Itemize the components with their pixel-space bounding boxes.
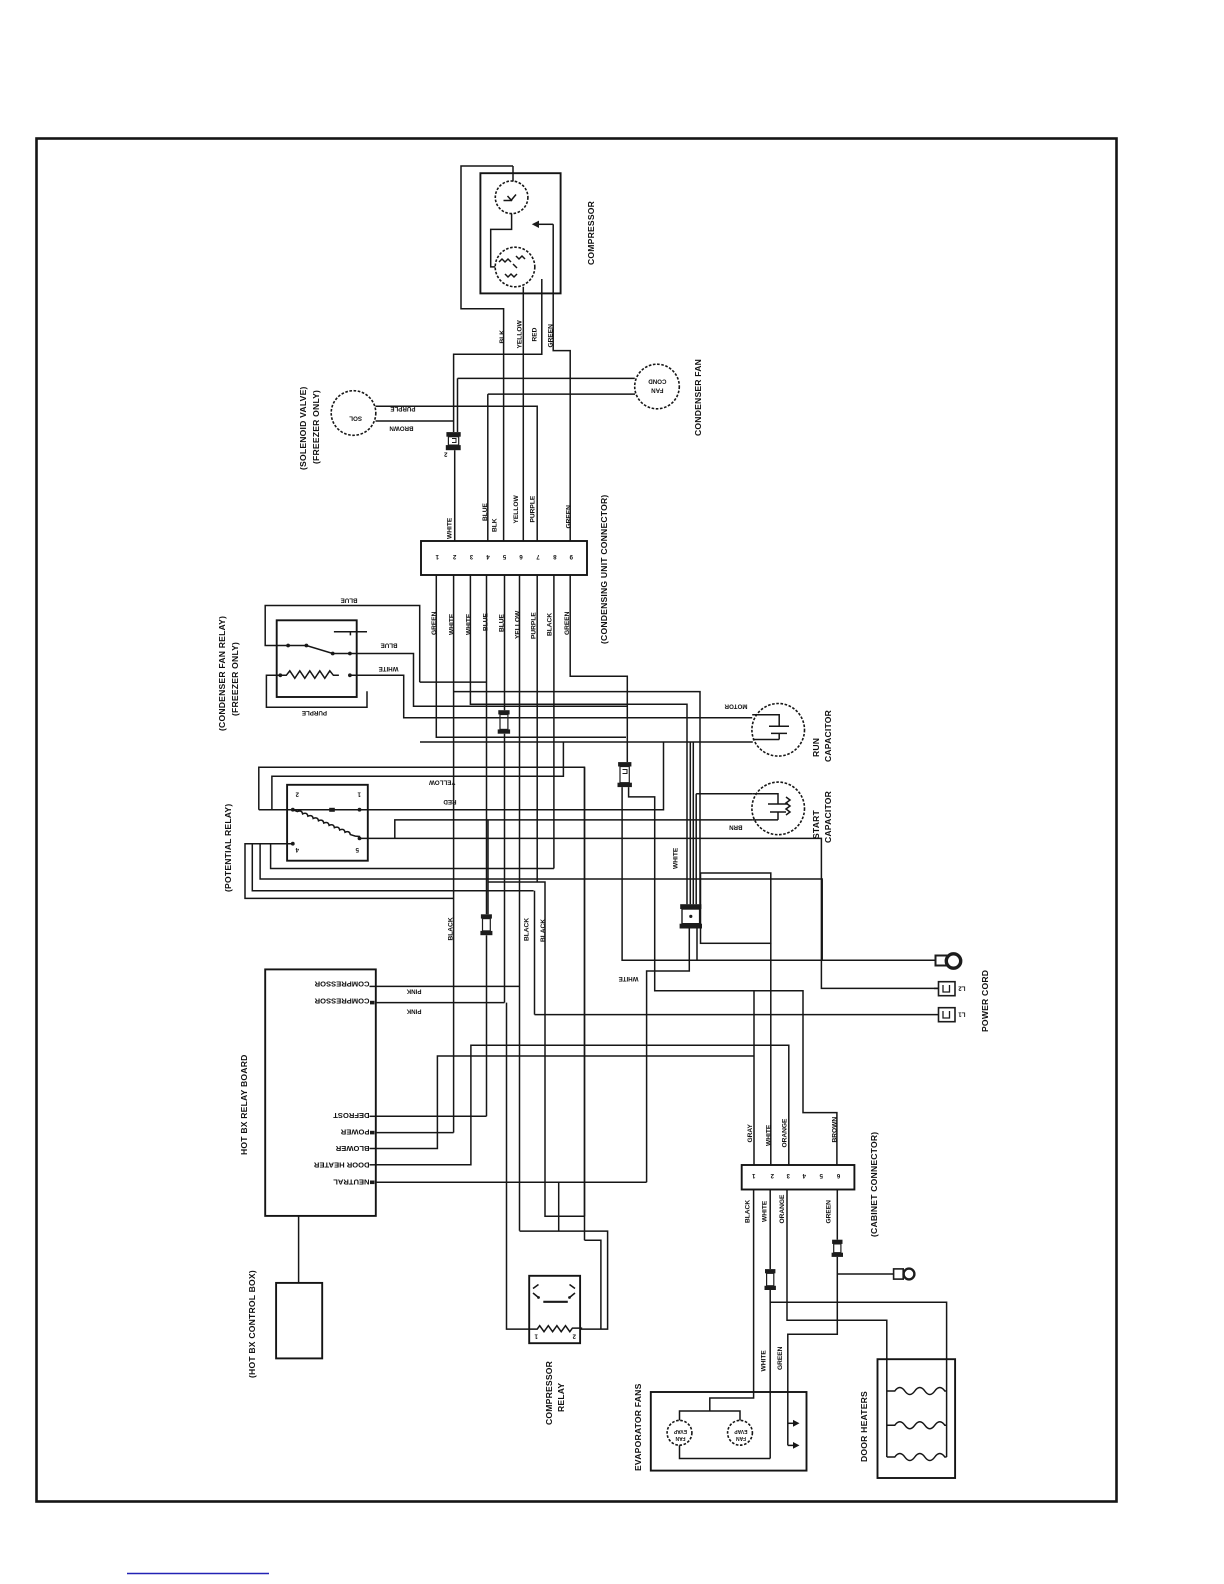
svg-text:5: 5 <box>819 1172 823 1179</box>
wire plug P4 right pin jog to cabinet pin6 BROWN <box>629 787 837 1165</box>
svg-text:WHITE: WHITE <box>449 613 456 635</box>
wire white branch to heater right bus <box>770 1302 946 1359</box>
heater element 2 <box>887 1422 947 1429</box>
svg-text:1: 1 <box>357 791 361 798</box>
svg-text:WHITE: WHITE <box>761 1350 768 1372</box>
relay coil <box>529 1326 582 1332</box>
wire fan lower to pin4 <box>488 394 635 541</box>
wire pin3 ORANGE down to heater left bus <box>787 1190 887 1360</box>
evap fan motor 2 <box>728 1420 753 1445</box>
svg-text:7: 7 <box>536 553 540 560</box>
svg-text:COND: COND <box>648 378 667 385</box>
svg-text:GREEN: GREEN <box>548 324 555 348</box>
svg-text:MOTOR: MOTOR <box>724 703 747 710</box>
svg-text:PURPLE: PURPLE <box>390 405 415 412</box>
wire overload to motor <box>491 214 512 267</box>
svg-text:4: 4 <box>486 553 490 560</box>
wire BROWN sol to plug junction <box>376 420 454 422</box>
wire terminal4 left leg to BLACK junction <box>245 844 454 899</box>
fan relay switch contacts <box>286 644 290 648</box>
svg-text:6: 6 <box>519 553 523 560</box>
svg-text:YELLOW: YELLOW <box>517 320 524 349</box>
svg-text:RED: RED <box>532 327 539 341</box>
wire COMPRESSOR2 PINK to pin5 line <box>376 1002 505 1004</box>
relay outer wire to pin4 BLUE <box>420 681 487 683</box>
svg-text:WHITE: WHITE <box>766 1124 773 1146</box>
svg-text:BLK: BLK <box>499 330 506 344</box>
svg-text:COMPRESSOR: COMPRESSOR <box>544 1360 554 1425</box>
cabinet connector J3 <box>742 1165 855 1190</box>
svg-text:(SOLENOID VALVE): (SOLENOID VALVE) <box>298 386 308 470</box>
relay movable contact bar <box>543 1301 568 1303</box>
svg-text:L1: L1 <box>958 1011 966 1018</box>
wire pin6 YELLOW long drop to compressor relay <box>519 575 521 1231</box>
svg-text:5: 5 <box>502 553 506 560</box>
svg-text:NEUTRAL: NEUTRAL <box>333 1178 370 1187</box>
svg-text:L2: L2 <box>958 985 966 992</box>
svg-text:COMPRESSOR: COMPRESSOR <box>586 200 596 265</box>
svg-text:EVAP: EVAP <box>673 1428 687 1434</box>
evap fan motor 1 <box>667 1420 692 1445</box>
overload hook symbol <box>504 195 517 202</box>
svg-text:YELLOW: YELLOW <box>429 779 456 786</box>
heater element 3 <box>887 1454 947 1461</box>
plug P5 on white wire <box>765 1269 776 1290</box>
wire pin6 down <box>836 1190 838 1240</box>
wire cabinet pin2 riser <box>770 943 772 1165</box>
wire neutral junction riser <box>558 1182 560 1231</box>
svg-text:BLACK: BLACK <box>540 919 547 942</box>
svg-text:GREEN: GREEN <box>826 1200 833 1224</box>
fan relay coil L1 <box>278 673 282 677</box>
condensing unit connector J1 <box>421 541 587 575</box>
svg-text:BLACK: BLACK <box>448 917 455 940</box>
motor windings symbol <box>499 256 525 277</box>
svg-text:CAPACITOR: CAPACITOR <box>823 790 833 843</box>
svg-text:YELLOW: YELLOW <box>515 610 522 639</box>
svg-text:BLK: BLK <box>492 518 499 532</box>
wire overload feed <box>512 166 514 182</box>
wire pin1 GREEN to plug riser <box>436 575 626 737</box>
internal arrow (relief) <box>539 223 553 225</box>
svg-text:GREEN: GREEN <box>777 1346 784 1370</box>
svg-text:3: 3 <box>469 553 473 560</box>
relay contact corner marks <box>533 1285 575 1298</box>
nest wire left (coil feed) <box>507 1003 530 1330</box>
door heaters box <box>878 1359 956 1478</box>
svg-text:POWER CORD: POWER CORD <box>980 970 990 1032</box>
svg-text:DOOR HEATERS: DOOR HEATERS <box>859 1391 869 1462</box>
svg-text:2: 2 <box>572 1333 576 1340</box>
svg-text:START: START <box>811 809 821 839</box>
wire terminal4 second leg to L1 drop <box>252 844 533 891</box>
nest wire A drop <box>584 767 586 1216</box>
svg-text:EVAPORATOR FANS: EVAPORATOR FANS <box>633 1383 643 1471</box>
arrow sensor 2 <box>788 1444 793 1446</box>
wires below bundle connector <box>647 929 690 1183</box>
bottom blue underline <box>127 1573 269 1575</box>
wire fan-upper to plug <box>458 378 635 432</box>
wire NEUTRAL <box>376 1181 647 1183</box>
wire pin2 branch to bundle <box>454 692 700 905</box>
hot bx relay board box <box>265 969 376 1216</box>
svg-text:ORANGE: ORANGE <box>779 1194 786 1224</box>
condenser fan relay K1 outer loop <box>265 606 420 683</box>
switch line terminal2-terminal1 <box>259 809 360 811</box>
start capacitor C2 <box>752 782 805 835</box>
wire B loop (YELLOW) <box>272 742 564 810</box>
compressor plug P1 <box>444 432 461 457</box>
wire L1 riser <box>534 891 536 1015</box>
wire DOOR HEATER to cabinet pin3 <box>376 1045 789 1165</box>
svg-text:2: 2 <box>444 451 448 458</box>
svg-text:HOT BX RELAY BOARD: HOT BX RELAY BOARD <box>239 1054 249 1155</box>
bundle connector J2 <box>680 904 702 928</box>
wire plug P4 left pin to ring terminal <box>622 787 936 960</box>
svg-text:COMPRESSOR: COMPRESSOR <box>314 997 369 1006</box>
evap bus bottom <box>680 1445 771 1458</box>
wire WHITE plug to pin2 <box>454 450 456 541</box>
svg-text:FAN: FAN <box>736 1435 746 1441</box>
svg-text:8: 8 <box>553 553 557 560</box>
wire pin4 DEFROST drop <box>486 575 488 914</box>
svg-text:5: 5 <box>355 846 359 853</box>
heater element 1 <box>887 1388 947 1395</box>
wire start capacitor top to bundle <box>696 794 753 905</box>
wire pin2 WHITE down <box>769 1190 771 1270</box>
svg-text:2: 2 <box>452 553 456 560</box>
svg-text:BLOWER: BLOWER <box>335 1144 369 1153</box>
svg-text:WHITE: WHITE <box>619 975 639 982</box>
fan relay fixed contact bar <box>334 632 367 636</box>
plug P6 on pin6 wire <box>832 1240 843 1257</box>
L2 wire & spade <box>934 982 966 996</box>
svg-text:4: 4 <box>802 1172 806 1179</box>
svg-text:PURPLE: PURPLE <box>302 709 327 716</box>
wire pin5 drop <box>504 575 506 710</box>
border frame <box>37 139 1117 1502</box>
pin numbers 1-9 (condensing unit connector) <box>435 553 573 560</box>
evap bus top <box>680 1411 741 1420</box>
plug P2 on defrost wire <box>480 914 492 935</box>
svg-text:BRN: BRN <box>729 824 743 831</box>
wire wrap to ring terminal line <box>260 844 822 961</box>
sensor bulb symbol <box>837 1273 893 1275</box>
condenser fan motor M1 <box>635 364 680 409</box>
fan relay switch output wire BLUE to plug riser <box>350 654 627 707</box>
svg-text:WHITE: WHITE <box>447 517 454 539</box>
svg-text:(CONDENSING UNIT CONNECTOR): (CONDENSING UNIT CONNECTOR) <box>599 495 609 644</box>
svg-text:BLACK: BLACK <box>524 918 531 941</box>
svg-text:(FREEZER ONLY): (FREEZER ONLY) <box>230 642 240 716</box>
wire RED compressor to plug <box>454 279 542 432</box>
L1 wire & spade <box>535 1008 966 1022</box>
svg-text:COMPRESSOR: COMPRESSOR <box>314 980 369 989</box>
svg-text:BLACK: BLACK <box>745 1200 752 1223</box>
svg-text:1: 1 <box>752 1172 756 1179</box>
wire PURPLE sol to pin7 <box>376 406 538 541</box>
svg-text:2: 2 <box>770 1172 774 1179</box>
svg-text:CAPACITOR: CAPACITOR <box>823 709 833 762</box>
wire POWER <box>376 1132 454 1134</box>
wire pin3 to bundle <box>470 575 687 904</box>
wire GREEN compressor to pin9 <box>553 224 570 541</box>
svg-text:6: 6 <box>836 1172 840 1179</box>
svg-text:(CABINET CONNECTOR): (CABINET CONNECTOR) <box>869 1132 879 1237</box>
svg-text:PURPLE: PURPLE <box>530 495 537 522</box>
fan relay inner box <box>277 620 357 697</box>
compressor outer wire loop + BLK wire <box>461 166 513 541</box>
svg-text:GRAY: GRAY <box>747 1123 754 1142</box>
svg-text:FAN: FAN <box>675 1435 685 1441</box>
svg-text:WHITE: WHITE <box>673 847 680 869</box>
svg-text:GREEN: GREEN <box>566 505 573 529</box>
wire second drop to defrost plug <box>487 820 489 914</box>
svg-text:RELAY: RELAY <box>556 1383 566 1412</box>
svg-text:WHITE: WHITE <box>379 665 399 672</box>
svg-text:(CONDENSER FAN RELAY): (CONDENSER FAN RELAY) <box>217 616 227 731</box>
svg-text:(POTENTIAL RELAY): (POTENTIAL RELAY) <box>223 804 233 892</box>
svg-text:BROWN: BROWN <box>832 1117 839 1143</box>
wire pin9 GREEN to plug P4 <box>570 575 627 762</box>
svg-text:POWER: POWER <box>340 1128 369 1137</box>
wire BLOWER to cabinet pin1 <box>376 1056 754 1149</box>
svg-text:BLUE: BLUE <box>482 502 489 521</box>
relay coil diagonal <box>293 810 360 837</box>
svg-text:(FREEZER ONLY): (FREEZER ONLY) <box>311 390 321 464</box>
wire pin8 drop <box>553 575 555 869</box>
svg-text:WHITE: WHITE <box>466 613 473 635</box>
svg-text:DOOR HEATER: DOOR HEATER <box>313 1161 369 1170</box>
ring terminal (ground) <box>936 954 961 968</box>
svg-text:CONDENSER FAN: CONDENSER FAN <box>693 359 703 436</box>
bundle lanes from rail <box>689 742 691 904</box>
plug P3 on pin5 wire <box>498 710 510 734</box>
svg-text:BROWN: BROWN <box>389 425 414 432</box>
wire wrap to pin8 junction <box>271 844 554 869</box>
wire terminal1 out (RED) <box>360 742 664 810</box>
svg-text:RUN: RUN <box>811 738 821 757</box>
compressor U1 outline (inner case box) <box>480 173 560 293</box>
wire branch to start capacitor bottom <box>395 820 753 839</box>
svg-text:YELLOW: YELLOW <box>513 495 520 524</box>
spare rectangle block <box>701 873 771 943</box>
heater buses <box>887 1359 947 1457</box>
svg-text:1: 1 <box>435 553 439 560</box>
wire relay box to control box <box>298 1216 300 1283</box>
svg-text:BLACK: BLACK <box>547 613 554 636</box>
wire run capacitor bottom rail <box>420 741 753 743</box>
compressor overload protector circle <box>495 181 528 214</box>
svg-text:ORANGE: ORANGE <box>782 1118 789 1148</box>
compressor motor circle <box>495 247 535 287</box>
wire terminal5 out to L2 spade <box>360 838 939 988</box>
svg-text:9: 9 <box>569 553 573 560</box>
svg-text:EVAP: EVAP <box>734 1428 748 1434</box>
wire YELLOW compressor to pin6 (continues to compressor relay) <box>522 287 524 541</box>
svg-text:3: 3 <box>786 1172 790 1179</box>
svg-text:WHITE: WHITE <box>762 1200 769 1222</box>
svg-text:RED: RED <box>443 798 457 805</box>
fan relay coil output wire WHITE to run capacitor top <box>350 675 752 717</box>
nest wire neutral top <box>558 1230 560 1232</box>
svg-text:(HOT BX CONTROL BOX): (HOT BX CONTROL BOX) <box>247 1270 257 1378</box>
wire pin2 WHITE/BLACK long drop to POWER <box>453 575 455 1133</box>
wire cabinet pin1 riser <box>753 991 755 1165</box>
potential relay K2 box <box>287 785 368 861</box>
wire COMPRESSOR1 PINK to pin6 line <box>376 985 520 987</box>
svg-text:2: 2 <box>295 791 299 798</box>
svg-text:BLUE: BLUE <box>341 597 358 604</box>
svg-text:BLUE: BLUE <box>381 642 398 649</box>
run capacitor C1 <box>752 704 805 757</box>
svg-text:1: 1 <box>534 1333 538 1340</box>
fan relay coil left hook wire <box>266 675 367 707</box>
svg-text:SOL: SOL <box>349 415 362 422</box>
svg-text:FAN: FAN <box>651 387 664 394</box>
wire DEFROST <box>376 1115 487 1117</box>
hot bx control box <box>276 1283 322 1359</box>
arrow sensor 1 <box>788 1422 793 1424</box>
evaporator fans box <box>651 1392 807 1471</box>
solenoid valve SOL <box>331 391 376 436</box>
wire pin7 to compressor relay <box>488 575 601 1329</box>
svg-text:PINK: PINK <box>406 988 421 995</box>
wire terminal2 loop out <box>259 767 585 1240</box>
svg-text:4: 4 <box>295 846 299 853</box>
svg-text:DEFROST: DEFROST <box>333 1111 370 1120</box>
compressor relay K3 box <box>529 1276 580 1343</box>
plug P4 (sol/green splice) <box>618 762 632 787</box>
wire pin1 BLK down to evap <box>710 1190 754 1412</box>
nest wire right (coil return up) <box>520 1231 608 1329</box>
svg-text:PINK: PINK <box>406 1008 421 1015</box>
